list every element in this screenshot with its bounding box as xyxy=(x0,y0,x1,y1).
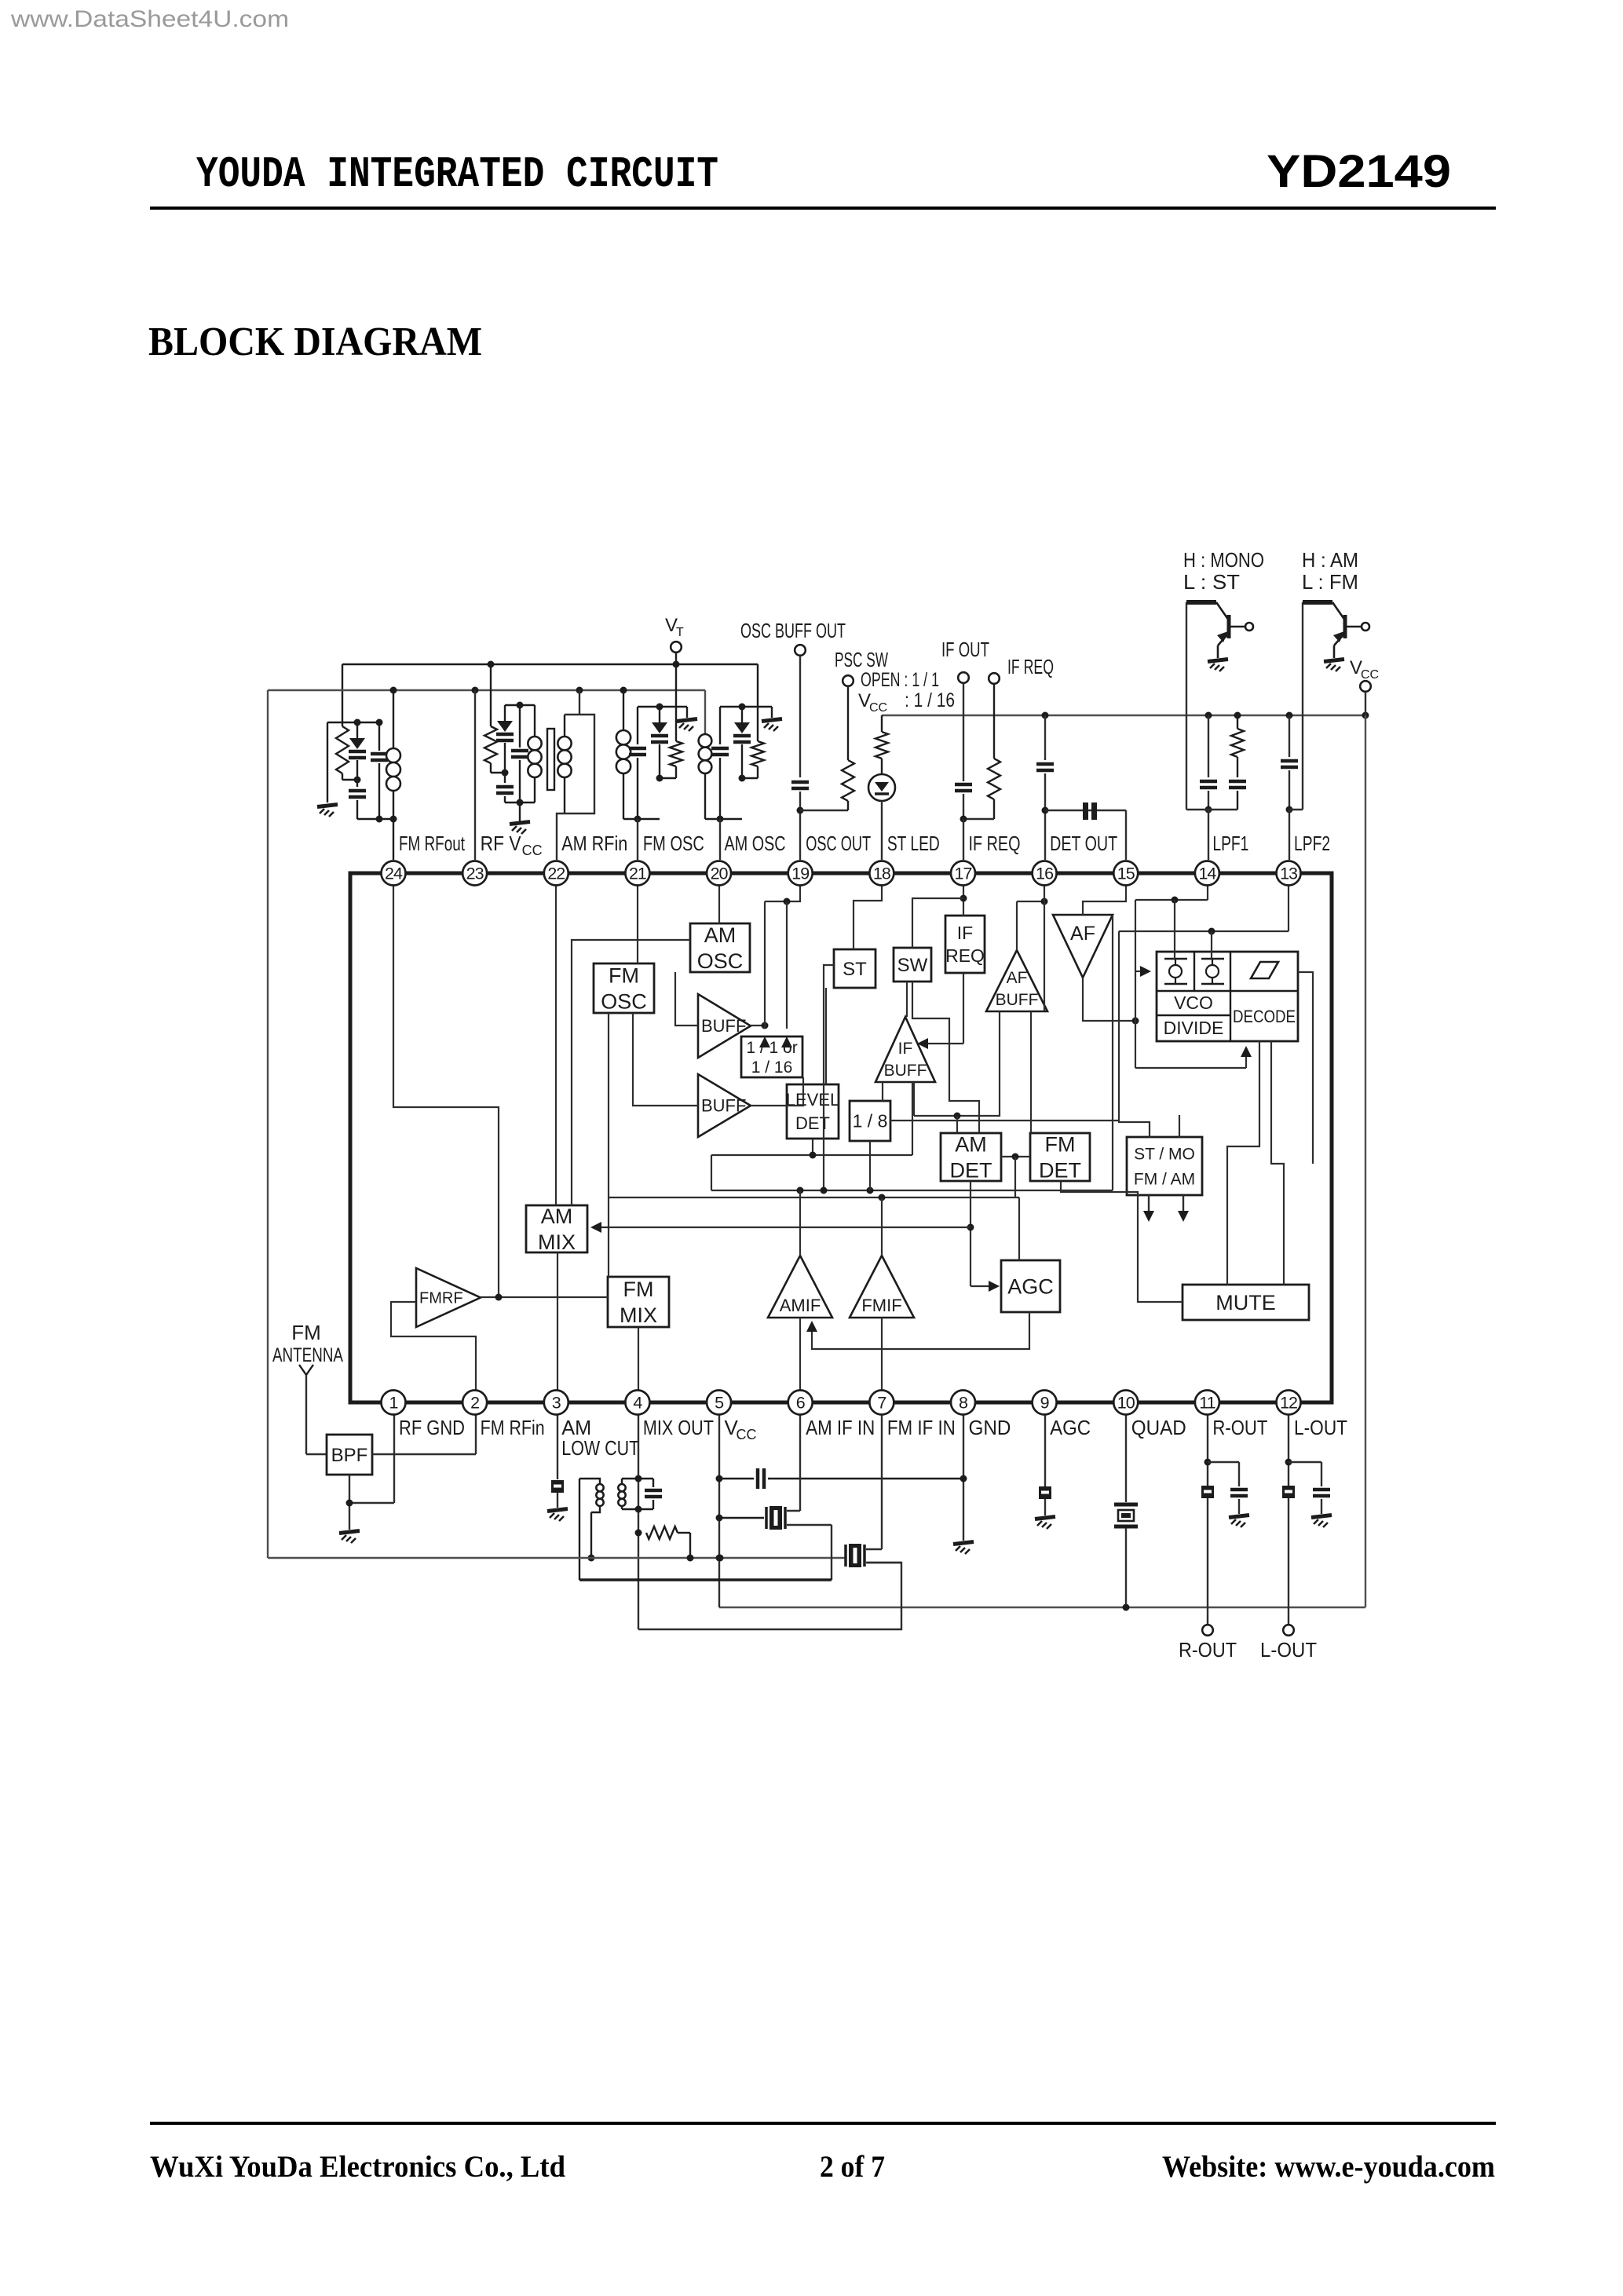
IF OUT terminal xyxy=(958,672,969,683)
RF tank: resistor R2 xyxy=(490,664,492,726)
transformer T1 core xyxy=(547,729,554,790)
wire pin14 to VCO xyxy=(1207,873,1208,900)
svg-text:QUAD: QUAD xyxy=(1131,1416,1186,1439)
OSC BUFF OUT terminal xyxy=(795,645,806,656)
bottom bar xyxy=(505,802,535,803)
wire DECODE to MUTE 2 xyxy=(1271,1041,1284,1285)
wire to pin16 xyxy=(1044,773,1046,860)
svg-text:FMIF: FMIF xyxy=(861,1296,901,1315)
svg-text:CC: CC xyxy=(869,701,887,715)
ground xyxy=(317,805,338,807)
PSC SW terminal xyxy=(843,675,854,686)
wire to pin13 xyxy=(1289,810,1290,860)
wire ST to LEVEL DET xyxy=(825,988,827,1084)
svg-text:2 of 7: 2 of 7 xyxy=(820,2150,885,2184)
svg-text:21: 21 xyxy=(629,865,646,883)
wire IF REQ to IF BUFF xyxy=(963,973,964,1044)
svg-text:R-OUT: R-OUT xyxy=(1179,1638,1237,1662)
wire DECODE to MUTE 1 xyxy=(1227,1041,1259,1285)
svg-text:DET: DET xyxy=(1039,1158,1081,1182)
FM OSC tank: inductor L4 xyxy=(623,690,624,730)
wire AF BUFF output up xyxy=(1016,901,1018,950)
wire AF BUFF to AM DET xyxy=(914,1011,1000,1116)
capacitor C15 xyxy=(719,1478,754,1479)
svg-text:FM: FM xyxy=(1045,1132,1076,1156)
wire pin2 to FMRF input xyxy=(391,1302,476,1402)
VCC terminal xyxy=(1360,681,1371,692)
wire AF right edge down xyxy=(1112,915,1113,1190)
amplifier AF BUFF xyxy=(986,950,1047,1011)
svg-text:IF OUT: IF OUT xyxy=(941,638,989,661)
R-OUT terminal xyxy=(1202,1625,1213,1636)
wire AMIF output to bus A xyxy=(799,1190,801,1256)
svg-text:8: 8 xyxy=(959,1394,968,1413)
svg-text:BPF: BPF xyxy=(331,1445,368,1466)
wire pin18 to ST xyxy=(854,873,882,949)
block FM MIX xyxy=(608,1277,669,1327)
block 1/8 xyxy=(850,1101,890,1141)
svg-text:L : ST: L : ST xyxy=(1183,570,1240,594)
svg-text:H : AM: H : AM xyxy=(1302,548,1358,572)
wire arrow into phase det xyxy=(1135,971,1145,972)
wire bus A left stub xyxy=(711,1155,712,1190)
wire pin20 to AM OSC xyxy=(718,873,720,923)
resistor R5 xyxy=(847,686,849,760)
svg-text:DET: DET xyxy=(950,1158,992,1182)
wire pin15 to AF xyxy=(1083,873,1126,915)
block AM OSC xyxy=(690,923,750,972)
wire to pin15 xyxy=(1125,810,1127,860)
wire pin8 to ground xyxy=(963,1402,964,1541)
ceramic filter X1 xyxy=(719,1517,764,1519)
wire AM DET to FM DET xyxy=(1001,1156,1030,1157)
L-OUT terminal xyxy=(1283,1625,1294,1636)
svg-text:14: 14 xyxy=(1198,865,1216,883)
transistor Q1 xyxy=(1186,600,1216,605)
svg-text:MIX: MIX xyxy=(538,1230,576,1254)
LPF2 capacitor C12 xyxy=(1289,715,1290,757)
VCC rail bottom xyxy=(719,1607,1365,1608)
svg-text:MUTE: MUTE xyxy=(1215,1291,1276,1314)
svg-text:IF: IF xyxy=(898,1040,913,1058)
wire to pin14 xyxy=(1208,810,1209,860)
pin11 R-OUT network xyxy=(1207,1402,1208,1624)
capacitor C1 xyxy=(356,780,358,787)
wire X2 lower xyxy=(866,1562,901,1563)
svg-text:AM IF IN: AM IF IN xyxy=(806,1416,875,1439)
svg-text:ST: ST xyxy=(843,959,867,980)
svg-text:16: 16 xyxy=(1036,865,1054,883)
wire pin22 to AM MIX xyxy=(555,873,557,1205)
wire FMRF output to FM MIX xyxy=(481,1296,608,1298)
pin10 discriminator X4 xyxy=(1125,1402,1127,1502)
block BPF xyxy=(327,1435,372,1475)
resistor R9 xyxy=(646,1526,678,1539)
svg-text:AM OSC: AM OSC xyxy=(725,832,786,855)
svg-text:BUFF: BUFF xyxy=(884,1062,927,1080)
FM RF tank: top bar xyxy=(327,722,379,723)
bottom bar xyxy=(623,818,660,820)
wire LEVEL DET bottom xyxy=(711,1154,912,1156)
wire X1 to pin6 xyxy=(787,1510,800,1512)
svg-text:DET OUT: DET OUT xyxy=(1050,832,1117,855)
svg-text:AM: AM xyxy=(541,1205,573,1228)
amplifier FMRF xyxy=(416,1268,481,1327)
svg-text:CC: CC xyxy=(737,1427,757,1442)
svg-text:ST / MO: ST / MO xyxy=(1134,1145,1195,1163)
top bar xyxy=(720,706,772,707)
MIX OUT tank: wire pin4 down xyxy=(638,1402,639,1629)
svg-text:GND: GND xyxy=(968,1416,1011,1439)
bottom bar xyxy=(1289,809,1303,810)
capacitor C6 xyxy=(719,707,721,744)
wire pin24 to FMRF output xyxy=(393,873,499,1297)
svg-text:DIVIDE: DIVIDE xyxy=(1164,1018,1224,1038)
wire pin21 to FM OSC xyxy=(637,873,638,963)
svg-text:IF REQ: IF REQ xyxy=(968,832,1020,855)
svg-text:LOW CUT: LOW CUT xyxy=(561,1436,639,1460)
wire pin3 to AM MIX xyxy=(557,1252,558,1402)
wire transistor collector xyxy=(1302,602,1303,810)
svg-text:10: 10 xyxy=(1117,1394,1135,1413)
amplifier FMIF xyxy=(850,1256,914,1318)
varactor D2 xyxy=(504,705,506,721)
svg-text:11: 11 xyxy=(1199,1394,1215,1413)
svg-text:FM IF IN: FM IF IN xyxy=(887,1416,956,1439)
ground xyxy=(510,822,530,824)
wire AF BUFF to FM DET xyxy=(1030,1011,1032,1133)
svg-text:OSC OUT: OSC OUT xyxy=(806,832,871,855)
ground xyxy=(1229,1515,1249,1518)
svg-text:1 / 16: 1 / 16 xyxy=(751,1058,793,1077)
svg-text:: 1 / 16: : 1 / 16 xyxy=(905,689,955,711)
capacitor C14 xyxy=(638,1478,653,1479)
svg-text:6: 6 xyxy=(796,1394,806,1413)
svg-text:AGC: AGC xyxy=(1050,1416,1091,1439)
svg-text:CC: CC xyxy=(522,843,543,858)
bottom bar xyxy=(357,818,393,820)
pin3 capacitor C13 xyxy=(557,1402,558,1479)
ground xyxy=(1208,660,1228,662)
ramp icon xyxy=(1251,962,1278,978)
svg-text:LPF2: LPF2 xyxy=(1294,832,1330,855)
svg-text:5: 5 xyxy=(715,1394,724,1413)
VT terminal xyxy=(671,642,682,653)
capacitor C8 xyxy=(963,683,964,781)
IC body outline U1 xyxy=(350,873,1332,1402)
wire pin13 to VCO xyxy=(1288,873,1289,931)
wire secondary loop to pin22 xyxy=(557,715,594,860)
wire BUFF1 output to divider xyxy=(751,1025,765,1026)
ground xyxy=(547,1509,568,1512)
varactor D3 xyxy=(659,707,660,722)
svg-text:L-OUT: L-OUT xyxy=(1260,1638,1317,1662)
VCC rail down right side xyxy=(1365,715,1366,1607)
wire BPF to pin2 xyxy=(372,1453,476,1455)
svg-text:www.DataSheet4U.com: www.DataSheet4U.com xyxy=(10,6,289,32)
svg-text:AM RFin: AM RFin xyxy=(561,832,627,855)
transformer T2 secondary xyxy=(622,1478,638,1479)
svg-text:20: 20 xyxy=(711,865,729,883)
phase det icon 1 xyxy=(1164,958,1187,960)
wire X2 to pin7 xyxy=(866,1548,882,1550)
svg-text:AF: AF xyxy=(1007,969,1028,987)
svg-text:FMRF: FMRF xyxy=(419,1290,463,1307)
wire bus B xyxy=(609,1197,1019,1198)
pin9 capacitor C16 xyxy=(1044,1402,1046,1486)
svg-text:MIX: MIX xyxy=(620,1303,657,1327)
svg-text:BLOCK DIAGRAM: BLOCK DIAGRAM xyxy=(148,320,482,364)
bottom bar xyxy=(705,818,742,820)
svg-text:AMIF: AMIF xyxy=(780,1296,821,1315)
capacitor C2 xyxy=(378,722,380,751)
svg-text:Website: www.e-youda.com: Website: www.e-youda.com xyxy=(1162,2150,1495,2184)
block ST xyxy=(834,949,875,988)
svg-text:23: 23 xyxy=(466,865,484,883)
ground xyxy=(1324,660,1344,662)
block FM DET xyxy=(1030,1133,1090,1181)
svg-text:ST LED: ST LED xyxy=(887,832,940,855)
block VCO DIVIDE DECODE xyxy=(1157,952,1298,1041)
capacitor C7 xyxy=(791,781,809,784)
svg-text:FM: FM xyxy=(609,963,639,987)
top bar xyxy=(505,704,535,706)
wire pin7 to FMIF xyxy=(881,1318,883,1402)
buffer BUFF2 xyxy=(698,1074,751,1137)
pins 24-13 xyxy=(382,861,406,886)
wire to PSC resistor xyxy=(800,810,848,811)
svg-text:OSC: OSC xyxy=(697,949,744,973)
capacitor C5 xyxy=(637,707,638,744)
svg-text:L : FM: L : FM xyxy=(1302,570,1358,594)
wire to ST/MO input 1 xyxy=(1119,931,1150,1138)
svg-text:R-OUT: R-OUT xyxy=(1212,1416,1267,1439)
ground stub xyxy=(686,707,688,718)
VCC rail A2 wire xyxy=(268,689,705,691)
wire X1 to AM IF line xyxy=(787,1524,832,1526)
resistor R1 xyxy=(342,722,343,726)
svg-text:BUFF: BUFF xyxy=(701,1096,746,1116)
wire FM OSC to FM MIX xyxy=(608,1013,609,1277)
ground xyxy=(953,1542,974,1545)
wire 1/8 to bus A xyxy=(869,1141,871,1190)
block ST/MO FM/AM xyxy=(1127,1137,1202,1195)
svg-text:7: 7 xyxy=(877,1394,886,1413)
svg-text:PSC SW: PSC SW xyxy=(835,648,888,671)
wire to ground xyxy=(327,722,328,803)
svg-text:2: 2 xyxy=(470,1394,479,1413)
resistor R3 xyxy=(675,664,677,741)
inductor L1 xyxy=(393,690,394,748)
wire FMIF output to bus B xyxy=(881,1197,883,1256)
block MUTE xyxy=(1183,1285,1309,1320)
wire mix out to FM filter xyxy=(638,1563,901,1629)
wire pin4 to FM MIX xyxy=(638,1327,639,1402)
wire pin17 to IF REQ and SW xyxy=(963,873,964,916)
inductor L2 xyxy=(534,705,536,737)
block LEVEL DET xyxy=(787,1084,839,1139)
LPF1 capacitor C10 xyxy=(1208,715,1209,777)
wire pin14 branch down xyxy=(1135,900,1136,1021)
node VT junctions xyxy=(488,661,495,668)
svg-text:MIX OUT: MIX OUT xyxy=(643,1416,714,1439)
svg-text:17: 17 xyxy=(955,865,972,883)
svg-text:SW: SW xyxy=(897,955,928,976)
wire FM DET to MUTE xyxy=(1061,1181,1183,1302)
capacitor C3 xyxy=(504,773,506,783)
svg-text:RF V: RF V xyxy=(481,832,522,855)
block AM MIX xyxy=(526,1205,587,1252)
wire AM OSC to BUFF1 xyxy=(675,972,698,1026)
svg-text:WuXi YouDa Electronics Co., Lt: WuXi YouDa Electronics Co., Ltd xyxy=(150,2150,565,2184)
resistor R4 xyxy=(751,741,764,766)
amplifier IF BUFF xyxy=(875,1017,935,1082)
svg-text:LPF1: LPF1 xyxy=(1212,832,1248,855)
wire BUFF2 output to divider xyxy=(751,1077,803,1106)
svg-text:BUFF: BUFF xyxy=(996,991,1039,1009)
svg-text:AF: AF xyxy=(1070,923,1095,945)
buffer BUFF1 xyxy=(698,994,751,1058)
svg-text:T: T xyxy=(676,626,684,639)
transistor Q2 xyxy=(1303,600,1332,605)
wire AM DET to AM MIX xyxy=(970,1181,971,1286)
resistor R7 xyxy=(993,684,995,759)
wire SW to AM DET xyxy=(912,982,979,1133)
svg-text:24: 24 xyxy=(385,865,403,883)
svg-text:18: 18 xyxy=(873,865,891,883)
wire ST/MO outputs xyxy=(1148,1195,1150,1216)
svg-text:AM: AM xyxy=(955,1132,987,1156)
svg-text:9: 9 xyxy=(1040,1394,1049,1413)
svg-text:FM: FM xyxy=(623,1278,654,1301)
wire pin19 to divider xyxy=(765,873,800,901)
svg-text:OPEN : 1 / 1: OPEN : 1 / 1 xyxy=(861,669,939,691)
VCC rail A3 wire xyxy=(882,715,1365,716)
svg-text:13: 13 xyxy=(1280,865,1298,883)
svg-text:15: 15 xyxy=(1117,865,1135,883)
wire to pin21 xyxy=(637,819,638,860)
svg-text:CC: CC xyxy=(1361,668,1379,682)
varactor D4 xyxy=(741,707,743,722)
svg-text:AM: AM xyxy=(704,923,737,947)
wire AM OSC to AM MIX xyxy=(572,940,690,1205)
svg-text:VCO: VCO xyxy=(1174,993,1213,1013)
svg-text:L-OUT: L-OUT xyxy=(1294,1416,1347,1439)
LPF1 resistor R8 xyxy=(1237,715,1238,729)
wire to pin20 xyxy=(719,819,721,860)
wire FM OSC to BUFF2 xyxy=(633,1013,698,1106)
svg-text:12: 12 xyxy=(1280,1394,1297,1413)
svg-text:FM: FM xyxy=(291,1321,321,1344)
ceramic resonator X3 xyxy=(1045,810,1126,811)
ground xyxy=(1035,1517,1055,1519)
svg-text:H : MONO: H : MONO xyxy=(1183,548,1264,572)
ground stub xyxy=(771,707,773,718)
wire AM DET to AGC xyxy=(971,1285,995,1287)
wire to ST/MO input 2 xyxy=(1179,1115,1180,1138)
IF REQ terminal xyxy=(989,673,1000,684)
header rule xyxy=(150,207,1496,210)
block SW xyxy=(894,948,931,982)
svg-text:IF: IF xyxy=(957,923,973,943)
wire ST left to bus xyxy=(824,965,834,1190)
svg-text:YOUDA INTEGRATED CIRCUIT: YOUDA INTEGRATED CIRCUIT xyxy=(196,149,718,199)
signal line long xyxy=(268,1557,845,1559)
transformer T2 primary xyxy=(579,1479,600,1484)
pin12 L-OUT network xyxy=(1288,1402,1289,1624)
block divider 1/1 or 1/16 xyxy=(741,1036,802,1077)
wire xyxy=(799,656,801,777)
wire pin1 ground net xyxy=(393,1402,395,1503)
wire bus B to AGC xyxy=(1018,1197,1020,1260)
LED D5 xyxy=(868,774,895,801)
wire AGC to AMIF xyxy=(812,1312,1029,1349)
amplifier AMIF xyxy=(768,1256,832,1318)
footer rule xyxy=(150,2122,1496,2125)
svg-text:1: 1 xyxy=(389,1394,398,1413)
block FM OSC xyxy=(594,963,654,1013)
varactor D1 xyxy=(356,722,358,738)
wire to pin19 xyxy=(799,792,801,860)
svg-text:RF GND: RF GND xyxy=(399,1416,465,1439)
wire pin6 to AMIF xyxy=(799,1318,801,1402)
AM OSC tank: inductor L5 xyxy=(699,734,712,748)
svg-text:1 / 8: 1 / 8 xyxy=(853,1111,888,1132)
bottom bar xyxy=(1186,809,1237,810)
block IF REQ xyxy=(945,916,985,973)
pin5 VCC wire down xyxy=(718,1402,720,1607)
svg-text:REQ: REQ xyxy=(945,945,985,966)
svg-text:FM RFout: FM RFout xyxy=(399,832,466,855)
ceramic filter X2 xyxy=(844,1545,847,1567)
svg-text:IF REQ: IF REQ xyxy=(1007,655,1054,678)
wire to ground xyxy=(519,803,521,821)
capacitor C4 xyxy=(519,705,521,748)
AM IF coupling line xyxy=(579,1578,832,1581)
amplifier AF xyxy=(1053,915,1113,978)
wire pin16 to AF BUFF xyxy=(1044,873,1045,1011)
wire IF BUFF out xyxy=(906,982,908,1017)
wire to pin18 xyxy=(881,801,883,860)
pins 1-12 xyxy=(382,1391,406,1415)
wire bus A xyxy=(711,1190,1113,1191)
svg-text:3: 3 xyxy=(552,1394,561,1413)
svg-text:19: 19 xyxy=(791,865,809,883)
svg-text:22: 22 xyxy=(547,865,565,883)
resistor R6 xyxy=(881,715,883,732)
wire transistor collector xyxy=(1186,602,1187,810)
VT rail wire xyxy=(342,664,758,665)
svg-text:BUFF: BUFF xyxy=(701,1016,746,1036)
svg-text:AGC: AGC xyxy=(1007,1274,1054,1298)
phase det icon 2 xyxy=(1201,958,1224,960)
svg-text:FM RFin: FM RFin xyxy=(481,1416,545,1439)
svg-text:LEVEL: LEVEL xyxy=(786,1090,840,1110)
wire 1/8 to DECODE xyxy=(890,1120,1119,1121)
wire join to pin17 xyxy=(963,818,994,820)
capacitor C9 xyxy=(1044,715,1046,760)
svg-text:OSC: OSC xyxy=(601,989,647,1013)
svg-text:ANTENNA: ANTENNA xyxy=(272,1344,343,1366)
top bar xyxy=(638,706,687,707)
svg-text:4: 4 xyxy=(633,1394,642,1413)
wire DECODE right xyxy=(1298,972,1313,1164)
svg-text:DET: DET xyxy=(795,1113,830,1133)
svg-text:DECODE: DECODE xyxy=(1233,1007,1296,1026)
ground xyxy=(1311,1515,1332,1518)
wire AF output xyxy=(1083,978,1135,1021)
ground xyxy=(339,1531,360,1534)
